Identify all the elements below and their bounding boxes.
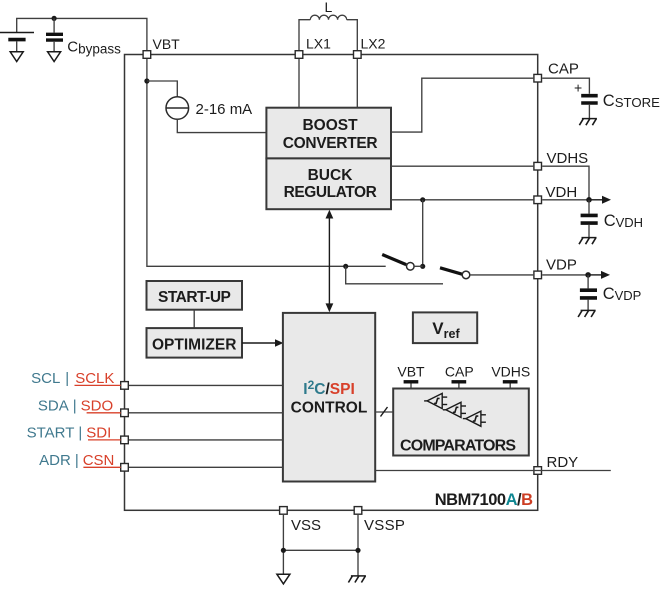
junction: current source tap [144, 78, 149, 83]
svg-text:VSSP: VSSP [364, 517, 405, 534]
label VSSP [364, 517, 405, 534]
wire: VBT internal rail down to switch [147, 59, 386, 266]
block BUCK REGULATOR [266, 158, 391, 209]
svg-text:NBM7100A/B: NBM7100A/B [435, 491, 533, 509]
arrow: buck to control (bidirectional) [326, 210, 334, 313]
label VDHS (comparator input) [491, 364, 530, 380]
svg-text:CAP: CAP [548, 61, 579, 78]
svg-text:LX2: LX2 [361, 36, 386, 52]
switch S2 (to VDP) [440, 268, 533, 279]
svg-text:L: L [325, 0, 333, 15]
terminal VDHS [503, 382, 518, 389]
svg-text:CAP: CAP [445, 364, 474, 380]
junction: VDH switch rail top [420, 197, 425, 202]
wire: VSS-VSSP link [283, 549, 358, 551]
wire: control to RDY pin and out [375, 470, 611, 472]
svg-text:VDH: VDH [546, 184, 578, 201]
junction: VSS link right [355, 548, 360, 553]
label START | SDI [27, 424, 121, 441]
ground (VSSP, hatched) [348, 576, 366, 583]
current source 2-16 mA [166, 97, 189, 120]
pin VDH [534, 196, 542, 204]
wire: lower switch rail [346, 266, 443, 284]
svg-text:REGULATOR: REGULATOR [284, 184, 377, 201]
wire: VDH rail down to switch [422, 200, 424, 266]
svg-text:RDY: RDY [547, 454, 579, 471]
block Vref [413, 312, 477, 343]
wire: SCLK to control [129, 384, 283, 386]
pin VDP [534, 271, 542, 279]
label SDA | SDO [38, 397, 121, 414]
ground (CVDP, hatched) [578, 310, 596, 317]
svg-text:Cbypass: Cbypass [67, 39, 121, 57]
label LX2 [361, 36, 386, 52]
svg-text:LX1: LX1 [306, 36, 331, 52]
ground (battery, open triangle) [10, 52, 23, 62]
svg-text:VSS: VSS [291, 517, 321, 534]
svg-text:2-16 mA: 2-16 mA [196, 101, 253, 118]
switch S1 (to VDH) [382, 255, 423, 271]
capacitor CSTORE with plus [542, 78, 598, 118]
label VBT (comparator input) [397, 364, 425, 380]
pin CAP [534, 74, 542, 82]
svg-text:CONTROL: CONTROL [291, 400, 368, 417]
label ADR | CSN [39, 452, 121, 469]
arrow: VDP output [588, 271, 610, 279]
svg-text:BUCK: BUCK [308, 167, 354, 184]
label 2-16 mA [196, 101, 253, 118]
junction: lower rail tap [343, 264, 348, 269]
pin VSSP [354, 507, 362, 515]
wire: SDI to control [129, 439, 283, 441]
label VDP [546, 257, 577, 274]
wire: buck output to VDHS pin [391, 165, 533, 167]
svg-text:+: + [574, 80, 582, 96]
wire: control to comparators (bus with slash) [375, 407, 393, 417]
ground (CSTORE, hatched) [579, 119, 597, 126]
capacitor CVDH [581, 200, 598, 238]
svg-text:COMPARATORS: COMPARATORS [400, 438, 516, 455]
wire: VSSP down [357, 515, 359, 576]
block BOOST CONVERTER [266, 108, 391, 159]
wire: tap to current source [147, 81, 177, 97]
pin CSN [121, 464, 129, 472]
junction: Cbypass tap [52, 16, 57, 21]
label VBT [153, 36, 181, 52]
label LX1 [306, 36, 331, 52]
pin SDO [121, 409, 129, 417]
block I2C/SPI CONTROL [283, 313, 375, 482]
wire: CSN to control [129, 466, 283, 468]
comparator U1 [424, 393, 447, 408]
svg-text:ADR|CSN: ADR|CSN [39, 452, 114, 469]
label L [325, 0, 333, 15]
svg-text:VBT: VBT [153, 36, 181, 52]
ground (Cbypass, open triangle) [48, 52, 61, 62]
terminal VBT [404, 382, 419, 389]
comparator U3 [463, 411, 486, 426]
svg-text:VDP: VDP [546, 257, 577, 274]
battery BT1 [0, 33, 34, 52]
pin RDY [534, 467, 542, 475]
junction: switch node [420, 264, 425, 269]
wire: buck output to VDH pin [391, 199, 533, 201]
pin VBT [143, 51, 151, 59]
wire: VDP external with junction [542, 272, 591, 278]
svg-text:BOOST: BOOST [302, 117, 358, 134]
comparator U2 [443, 402, 466, 417]
wire: start-up to optimizer [193, 310, 195, 328]
svg-text:CSTORE: CSTORE [603, 92, 660, 110]
block START-UP [147, 281, 243, 310]
ground (VSS, open triangle) [277, 574, 290, 584]
inductor L [299, 15, 357, 50]
wire: battery positive rail to VBT [17, 18, 147, 50]
svg-text:OPTIMIZER: OPTIMIZER [152, 336, 236, 353]
label RDY [547, 454, 579, 471]
label CVDH [604, 212, 643, 230]
svg-text:CVDP: CVDP [603, 285, 642, 303]
wire: LX2 to boost [356, 59, 358, 108]
capacitor CVDP [580, 275, 597, 311]
label VDHS [547, 150, 589, 167]
svg-text:SDA|SDO: SDA|SDO [38, 397, 113, 414]
chip outline NBM7100 [125, 55, 538, 511]
label VSS [291, 517, 321, 534]
label CVDP [603, 285, 642, 303]
svg-text:CVDH: CVDH [604, 212, 643, 230]
wire: VDHS external to VDH node [542, 166, 589, 200]
svg-text:START|SDI: START|SDI [27, 424, 112, 441]
svg-text:CONVERTER: CONVERTER [283, 135, 378, 152]
block COMPARATORS [393, 389, 529, 456]
pin SDI [121, 436, 129, 444]
svg-text:START-UP: START-UP [158, 289, 231, 306]
pin LX2 [354, 51, 362, 59]
arrow: VDH output [589, 196, 611, 204]
label CSTORE [603, 92, 660, 110]
svg-text:VDHS: VDHS [491, 364, 530, 380]
wire: boost output to CAP pin [391, 78, 533, 132]
pin LX1 [295, 51, 303, 59]
label Cbypass [67, 39, 121, 57]
arrow: optimizer to control [242, 339, 283, 347]
junction: VSS link left [281, 548, 286, 553]
pin VDHS [534, 162, 542, 170]
wire: LX1 to boost [298, 59, 300, 108]
label CAP [548, 61, 579, 78]
ground (CVDH, hatched) [579, 238, 597, 245]
wire: current source to boost converter [177, 119, 266, 132]
block OPTIMIZER [147, 328, 243, 358]
capacitor Cbypass [46, 18, 63, 51]
label SCL | SCLK [31, 370, 121, 387]
svg-text:VDHS: VDHS [547, 150, 589, 167]
wire: SDO to control [129, 412, 283, 414]
label CAP (comparator input) [445, 364, 474, 380]
pin VSS [280, 507, 288, 515]
wire: VDH external with junction [542, 197, 592, 203]
label VDH [546, 184, 578, 201]
label NBM7100A/B [435, 491, 533, 509]
terminal CAP [452, 382, 467, 389]
wire: VSS down [282, 515, 284, 574]
pin SCLK [121, 382, 129, 390]
svg-text:VBT: VBT [397, 364, 425, 380]
